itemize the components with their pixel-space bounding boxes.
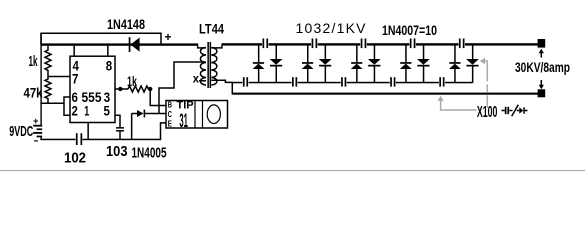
svg-text:E: E [168,119,173,128]
svg-text:TIP: TIP [177,99,194,111]
wire: pin 1 to ground rail [87,123,89,140]
symbol slash (X100 legend) [512,105,519,117]
diode D-up5 1N4007 [449,46,461,84]
diode D1 1N4148 (in top rail, pointing left) [129,37,140,52]
label 1N4007=10 [382,22,437,38]
label 9VDC [9,123,33,140]
svg-text:31: 31 [179,111,188,132]
wire: primary center tap to collector C [159,62,206,114]
label 1032/1KV [296,20,367,36]
label 1N4005 [132,144,167,161]
wire: pin 5 stub and down [115,115,120,127]
svg-text:1: 1 [84,103,89,119]
label - (battery) [34,136,39,147]
diode D-dn2 1N4007 [319,46,332,84]
wire: +V top rail (left section) [40,43,198,45]
label 1k (middle) [127,73,137,89]
svg-text:C: C [168,110,172,119]
svg-text:-: - [34,136,39,147]
svg-text:8: 8 [106,58,113,74]
wire: 1N4005 anode to ground rail [131,114,133,140]
arrow up (output gap) [539,49,544,58]
svg-text:30KV/8amp: 30KV/8amp [515,59,570,75]
diode D-up1 1N4007 [253,46,265,84]
resistor R2 47k (vertical, left) [45,73,51,103]
resistor R3 1k (horizontal, pin3 to base) [128,86,152,92]
label 555 [82,89,102,105]
capacitor C1 102 (in bottom rail) [76,133,83,145]
pin label C [168,110,172,119]
wire: R2 bottom to pin2/6 node [41,102,64,104]
symbol diode (X100 legend) [517,107,528,113]
wire: multiplier bottom capacitor row [232,82,473,84]
pin label B [168,100,172,109]
diode D-up3 1N4007 [351,46,363,84]
label 30KV/8amp [515,59,570,75]
transformer T1 LT44 [200,42,216,88]
svg-text:1N4005: 1N4005 [132,144,167,161]
wire: left border vertical from loop to battery [40,33,41,126]
pin 1 label [84,103,89,119]
diode D-dn3 1N4007 [368,46,381,84]
pin 4 label [73,58,80,74]
wire: pin 3 stub with junction dot [115,87,128,91]
capacitor C-top5 1032/1KV [458,39,465,49]
svg-text:9VDC: 9VDC [9,123,33,140]
diode D-dn4 1N4007 [417,46,430,84]
label + (node right of 1N4148) [165,30,172,44]
capacitor C-bot4 1032/1KV [390,77,396,86]
svg-text:1k: 1k [29,53,38,70]
gray page divider line [0,170,585,171]
capacitor C-top4 1032/1KV [409,39,416,49]
label 102 [64,150,86,167]
output terminal top [538,39,546,48]
wire: bypass loop over 1N4148 [41,33,161,44]
label TIP [177,99,194,111]
label 47k [24,85,43,101]
capacitor C-top1 1032/1KV [262,39,269,49]
capacitor C-bot2 1032/1KV [292,77,298,86]
svg-text:7: 7 [72,71,79,87]
svg-text:+: + [33,116,39,126]
capacitor C-bot3 1032/1KV [341,77,347,86]
svg-text:B: B [168,100,172,109]
pin label E [168,119,173,128]
diode D2 1N4005 (collector clamp) [132,110,167,118]
transistor Q1 TIP31 package [166,101,228,129]
svg-text:2: 2 [72,103,79,119]
wire: emitter E to ground rail [161,123,167,139]
wire: R3 to base B [150,89,166,106]
symbol capacitor (X100 legend) [502,107,513,114]
wire: secondary bottom lead [211,80,232,93]
svg-text:47k: 47k [24,85,43,101]
pin 3 label [104,89,111,105]
capacitor C-bot5 1032/1KV [439,77,445,86]
label 31 [179,111,188,132]
diode D-up4 1N4007 [400,46,412,84]
diode D-up2 1N4007 [302,46,314,84]
diode D-dn1 1N4007 [270,46,283,84]
svg-text:102: 102 [64,150,86,167]
svg-text:1N4148: 1N4148 [107,16,145,32]
svg-text:1k: 1k [127,73,137,89]
label 1N4148 [107,16,145,32]
svg-text:1032/1KV: 1032/1KV [296,20,367,36]
capacitor C-bot1 1032/1KV [242,77,248,86]
svg-text:103: 103 [106,143,128,160]
svg-text:1N4007=10: 1N4007=10 [382,22,437,38]
wire: junction R1/R2 to pin 7 [48,76,70,78]
wire: pin 4 stub to rail [73,45,75,57]
pin 5 label [104,103,111,119]
capacitor C2 103 (pin 5 to ground) [116,127,124,139]
svg-text:x: x [193,72,199,86]
annotation arrow to last diode (gray) [480,58,488,108]
svg-text:LT44: LT44 [199,21,224,37]
capacitor C-top3 1032/1KV [360,39,367,49]
output terminal bottom [538,89,546,97]
pin 6 label [72,89,79,105]
label + (battery) [33,116,39,126]
capacitor C-top2 1032/1KV [311,39,318,49]
wire: primary bottom stub [199,80,206,82]
label LT44 [199,21,224,37]
pin 8 label [106,58,113,74]
op-amp U1 555 timer box [70,56,115,122]
wire: pins 2-6 tie bracket [64,97,70,115]
wire: secondary top lead to HV rail [211,46,222,48]
label 1k (left) [29,53,38,70]
label X100 [477,104,498,121]
battery B1 9VDC [33,125,42,140]
wire: output return rail [232,93,538,95]
annotation arrow to return rail (gray) [438,96,477,110]
wire: primary top lead to rail [198,46,206,48]
resistor R1 1k (vertical, left) [45,46,51,73]
svg-text:X100: X100 [477,104,498,121]
wire: pin 8 stub to rail [107,45,109,57]
label 103 [106,143,128,160]
arrow down (output gap) [539,80,544,89]
wire: HV top rail [222,43,539,45]
wire: ground bottom rail [40,139,161,141]
label X (unused transformer lead) [193,72,199,86]
pin 2 label [72,103,79,119]
pin 7 label [72,71,79,87]
svg-text:+: + [165,30,172,44]
diode D-dn5 1N4007 [466,46,479,84]
svg-text:5: 5 [104,103,111,119]
